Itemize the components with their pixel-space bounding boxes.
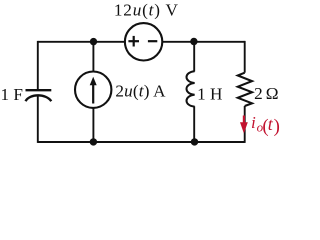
node dot top inductor junction bbox=[190, 38, 197, 45]
wire top-left segment bbox=[38, 41, 125, 43]
current source arrow bbox=[90, 77, 97, 104]
svg-text:i: i bbox=[251, 113, 256, 132]
wire current-source top lead bbox=[92, 42, 94, 72]
wire bottom bbox=[38, 141, 245, 143]
node dot bottom inductor junction bbox=[191, 138, 198, 145]
svg-text:2u(t) A: 2u(t) A bbox=[115, 82, 166, 101]
wire inductor top lead bbox=[193, 42, 195, 72]
wire current-source bottom lead bbox=[92, 108, 94, 142]
wire top-right segment bbox=[162, 41, 244, 43]
output current reference arrow for io(t) bbox=[240, 116, 248, 134]
wire right branch upper bbox=[244, 41, 246, 73]
voltage source V1 circle bbox=[125, 23, 162, 60]
svg-text:1 H: 1 H bbox=[197, 84, 222, 103]
wire left branch lower bbox=[37, 96, 39, 143]
node dot top current-source junction bbox=[90, 38, 97, 45]
wire left branch upper bbox=[37, 41, 39, 90]
svg-text:12u(t) V: 12u(t) V bbox=[114, 1, 179, 20]
voltage source V1 minus polarity mark bbox=[148, 40, 157, 42]
svg-text:1 F: 1 F bbox=[1, 85, 23, 104]
resistor R1 zigzag bbox=[238, 73, 252, 106]
inductor L1 coil bbox=[187, 71, 195, 106]
voltage source V1 plus polarity mark bbox=[128, 36, 139, 47]
wire inductor bottom lead bbox=[193, 106, 195, 142]
svg-text:): ) bbox=[274, 116, 280, 137]
svg-text:2 Ω: 2 Ω bbox=[254, 84, 278, 103]
capacitor C1 1 F bbox=[26, 90, 52, 101]
node dot bottom current-source junction bbox=[90, 138, 97, 145]
wire right branch lower bbox=[244, 106, 246, 143]
current source I1 circle bbox=[75, 72, 111, 108]
